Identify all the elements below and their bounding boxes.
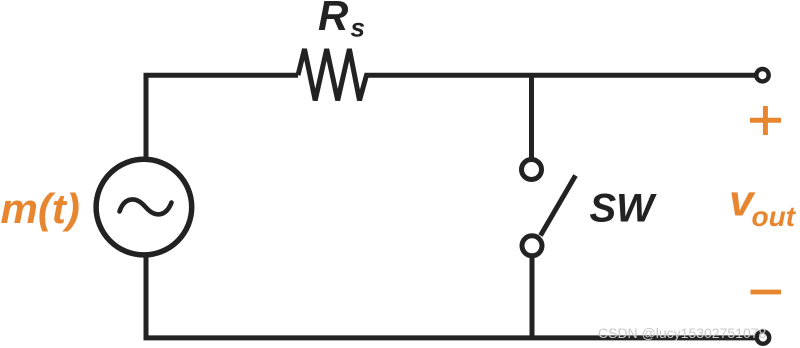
svg-text:out: out xyxy=(752,201,797,232)
svg-text:CSDN @lucy15302751078: CSDN @lucy15302751078 xyxy=(598,325,767,341)
svg-text:SW: SW xyxy=(590,186,658,230)
svg-text:s: s xyxy=(351,13,365,43)
svg-text:m(t): m(t) xyxy=(1,185,80,232)
svg-text:R: R xyxy=(318,0,349,39)
